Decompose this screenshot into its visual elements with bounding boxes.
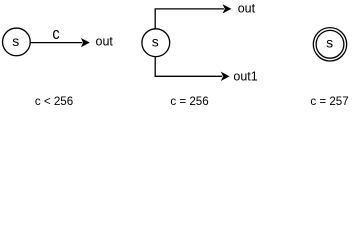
label s (middle state) — [152, 34, 159, 50]
svg-text:c < 256: c < 256 — [35, 95, 73, 108]
state s (left, c < 256) — [3, 28, 31, 56]
svg-text:c = 256: c = 256 — [170, 95, 208, 108]
svg-text:out1: out1 — [233, 69, 257, 83]
caption c = 257 — [310, 95, 348, 108]
caption c < 256 — [35, 95, 73, 108]
label c on arrow — [52, 25, 59, 43]
wire: arrow from left state to out — [31, 39, 89, 46]
svg-text:c = 257: c = 257 — [310, 95, 348, 108]
state s (right, accepting, c = 257) outer ring — [313, 28, 346, 61]
wire: arrow from middle state down to out1 — [155, 57, 228, 80]
svg-text:s: s — [12, 33, 19, 49]
node out1 (middle group, bottom) — [233, 69, 257, 83]
caption c = 256 — [170, 95, 208, 108]
svg-text:out: out — [96, 35, 114, 49]
state s (right) inner ring — [316, 30, 344, 58]
node out (left group) — [96, 35, 114, 49]
label s (right state) — [326, 35, 333, 51]
label s (left state) — [12, 33, 19, 49]
svg-text:c: c — [52, 25, 59, 43]
svg-text:out: out — [238, 2, 256, 16]
state s (middle, c = 256) — [142, 29, 170, 57]
node out (middle group, top) — [238, 2, 256, 16]
svg-text:s: s — [326, 35, 333, 51]
wire: arrow from middle state up to out — [155, 5, 230, 28]
svg-text:s: s — [152, 34, 159, 50]
